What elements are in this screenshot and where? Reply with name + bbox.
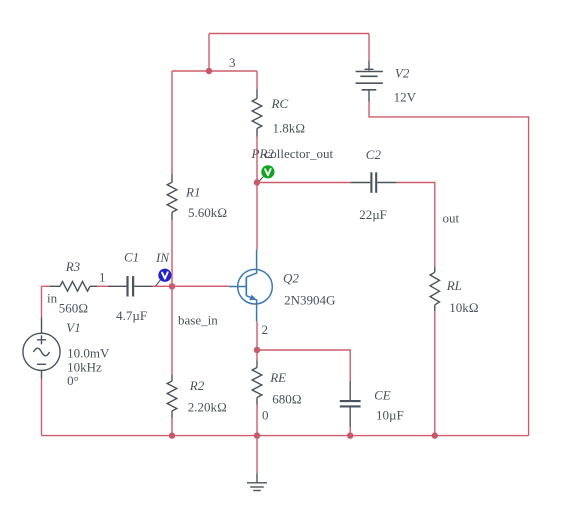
svg-text:C2: C2 [366, 147, 382, 162]
svg-text:5.60kΩ: 5.60kΩ [188, 205, 227, 220]
svg-text:C1: C1 [124, 249, 139, 264]
svg-text:3: 3 [229, 55, 236, 70]
svg-text:22µF: 22µF [359, 207, 387, 222]
svg-text:1.8kΩ: 1.8kΩ [273, 121, 306, 136]
svg-text:V2: V2 [395, 66, 410, 81]
svg-text:collector_out: collector_out [265, 146, 334, 161]
resistor RE [252, 361, 262, 405]
svg-text:0°: 0° [67, 373, 79, 388]
svg-text:10µF: 10µF [376, 407, 404, 422]
wire node3 riser [208, 34, 210, 72]
junction dot R2 bottom [169, 432, 175, 438]
capacitor CE [340, 381, 361, 427]
wire base row from V1 corner [42, 285, 50, 287]
svg-text:1: 1 [99, 270, 106, 285]
ground [247, 474, 267, 491]
source V1 [23, 318, 60, 379]
capacitor C2 [350, 172, 396, 193]
transistor Q2 [229, 249, 272, 321]
svg-text:4.7µF: 4.7µF [116, 308, 147, 323]
base node junction dot [169, 283, 175, 289]
resistor R3 [50, 282, 97, 292]
svg-text:2: 2 [262, 322, 269, 337]
wire C1 to base node [153, 285, 229, 287]
wire collector node to C2 [257, 182, 350, 184]
resistor RL [430, 267, 439, 311]
wire RE bottom red [256, 405, 258, 436]
svg-text:out: out [443, 211, 460, 226]
resistor R1 [167, 174, 177, 220]
wire V1 top [41, 286, 43, 317]
wire base_in vertical [171, 220, 173, 374]
svg-text:R1: R1 [185, 185, 200, 200]
junction dot CE bottom [347, 432, 353, 438]
wire CE bottom [349, 427, 351, 436]
probe collector_out green [258, 165, 275, 182]
svg-text:RE: RE [269, 370, 286, 385]
svg-text:10kΩ: 10kΩ [449, 300, 479, 315]
svg-text:base_in: base_in [178, 313, 218, 328]
wire V1 bottom [41, 379, 43, 436]
wire bottom rail [42, 435, 529, 437]
wire Q2 collector red [256, 183, 258, 250]
wire R2 bottom [171, 418, 173, 436]
wire RC to collector node [256, 137, 258, 183]
svg-text:12V: 12V [394, 90, 417, 105]
wire ground stem [256, 436, 258, 474]
svg-text:2.20kΩ: 2.20kΩ [188, 400, 227, 415]
wire RE top red [256, 350, 258, 361]
svg-text:RL: RL [446, 278, 462, 293]
junction dot ground [254, 432, 260, 438]
wire top from node3 riser to V2 [209, 33, 369, 35]
svg-text:R3: R3 [65, 259, 81, 274]
collector node junction dot [254, 179, 260, 185]
capacitor C1 [108, 276, 153, 296]
wire RC branch top [256, 71, 258, 89]
wire V2 bottom to right edge [369, 102, 529, 436]
probe IN blue [156, 269, 172, 287]
wire emitter to CE branch [257, 350, 350, 381]
emitter junction dot [254, 347, 260, 353]
svg-text:RC: RC [271, 96, 289, 111]
wire C2 to RL branch [397, 183, 435, 268]
resistor RC [252, 89, 262, 137]
svg-text:10.0mV: 10.0mV [67, 345, 110, 360]
battery V2 [356, 61, 383, 102]
wire Q2 emitter red [256, 322, 258, 350]
resistor R2 [167, 374, 177, 418]
wire R1 branch top [171, 71, 173, 174]
svg-text:2N3904G: 2N3904G [284, 292, 335, 307]
svg-text:V1: V1 [66, 320, 80, 335]
wire Q2 base red [172, 285, 229, 287]
svg-text:Q2: Q2 [283, 270, 299, 285]
wire RL bottom [434, 311, 436, 436]
svg-text:IN: IN [155, 250, 170, 265]
wire V2 top lead red [368, 34, 370, 62]
svg-text:R2: R2 [189, 378, 205, 393]
svg-text:560Ω: 560Ω [59, 300, 89, 315]
wire node3 horizontal [172, 70, 257, 72]
svg-text:in: in [47, 290, 58, 305]
junction dot RL bottom [432, 432, 438, 438]
svg-text:680Ω: 680Ω [272, 392, 302, 407]
wire R3 to C1 [97, 285, 108, 287]
node 3 junction dot [206, 68, 212, 74]
svg-text:CE: CE [374, 388, 391, 403]
svg-text:0: 0 [262, 408, 269, 423]
